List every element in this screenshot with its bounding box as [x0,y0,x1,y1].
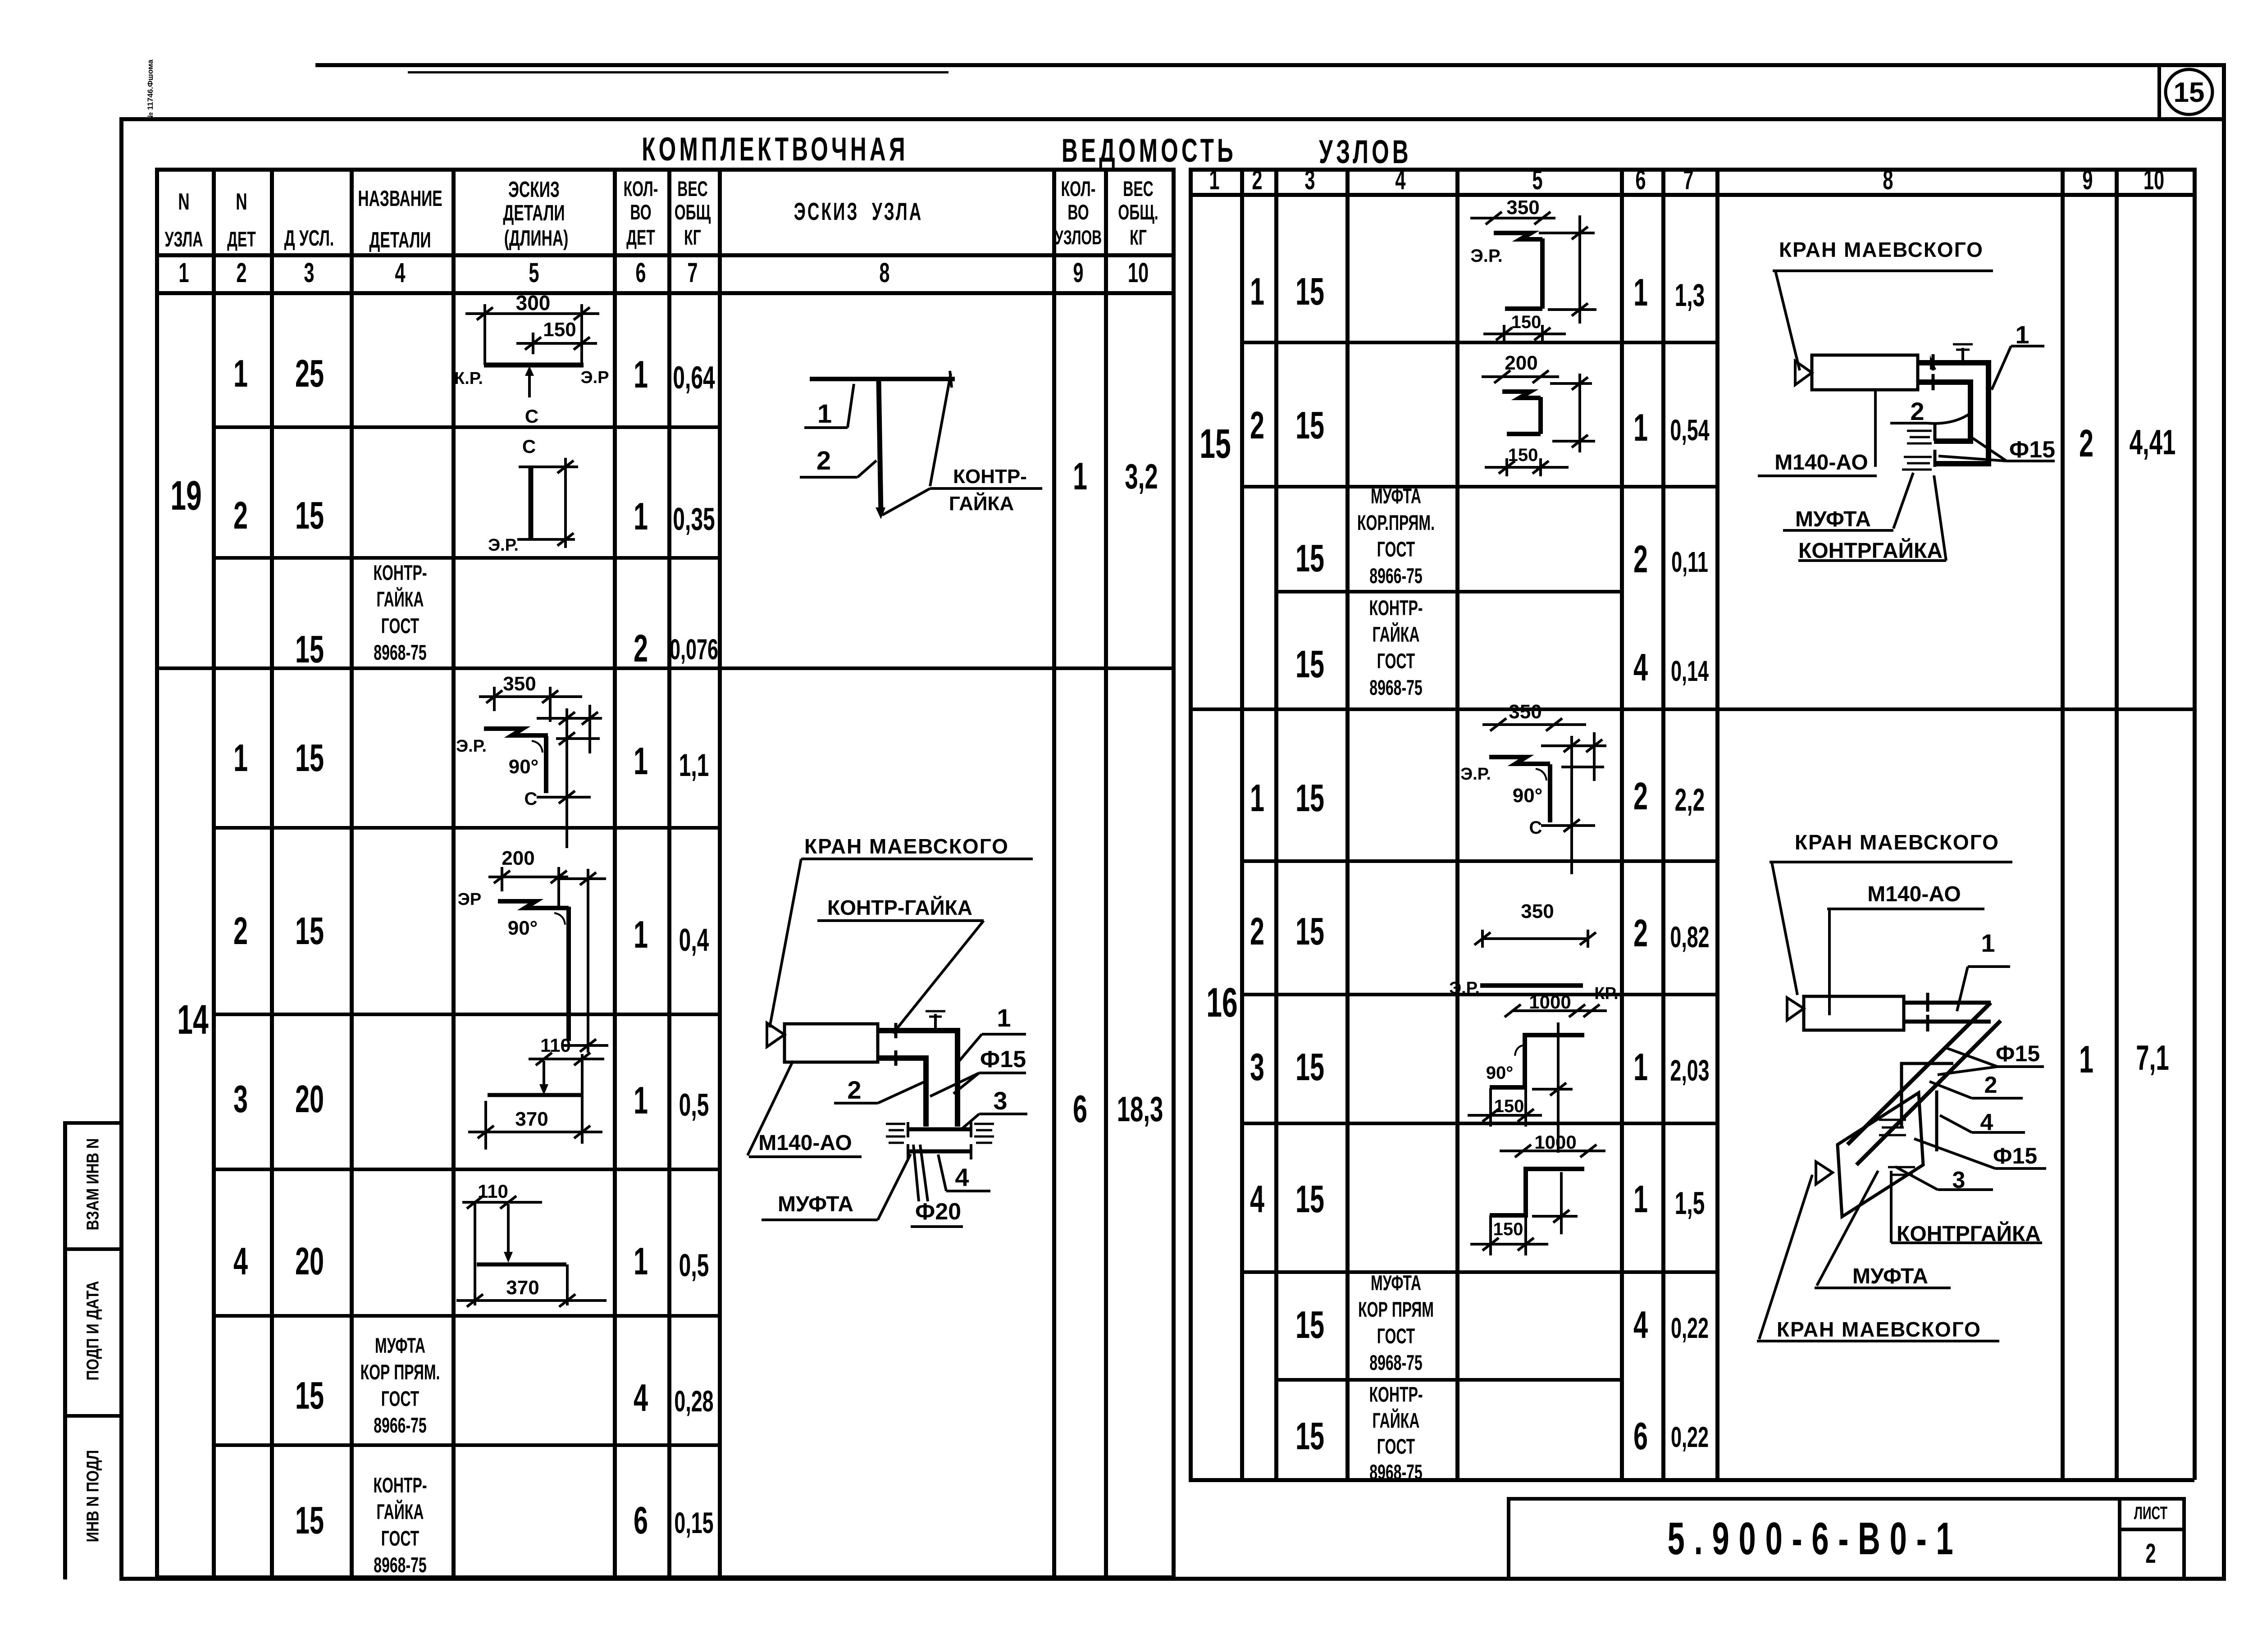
valve top body [1804,996,1904,1030]
svg-text:350: 350 [1521,900,1554,922]
valve M140 body [1812,355,1918,390]
left table col line 6 [613,168,617,1578]
svg-text:М140-АО: М140-АО [1867,882,1961,906]
svg-text:1: 1 [1981,929,1995,957]
sketch node 19 assembly [789,370,1059,523]
svg-text:КРАН МАЕВСКОГО: КРАН МАЕВСКОГО [1777,1318,1981,1341]
node 16 row5 kol [1633,1304,1648,1346]
svg-text:150: 150 [543,319,576,341]
svg-text:МУФТА: МУФТА [1795,507,1871,531]
title block sheet number [2145,1538,2156,1570]
valve M140 body [784,1024,878,1062]
svg-text:Ф15: Ф15 [1993,1143,2037,1168]
right sub-row divider 15r3 [1274,590,1621,593]
strip divider 3 [63,1414,123,1418]
right table bottom [1189,1478,2194,1482]
svg-text:2: 2 [816,446,831,475]
node 15 row1 ves [1675,277,1705,313]
sketch node16 det4 step 1000 150 [1455,1127,1620,1272]
connector hook [1902,1063,1953,1127]
svg-text:КРАН МАЕВСКОГО: КРАН МАЕВСКОГО [1795,831,1999,854]
node 19 row1 ves [673,360,715,395]
title block word list [2134,1503,2167,1524]
svg-text:C: C [1529,818,1542,838]
sketch node14 det4 pipe 110 370 [452,1169,613,1315]
node 16 row1 dusl [1295,777,1324,820]
stem symbol [1961,348,1964,363]
svg-text:15: 15 [2174,77,2205,108]
left sub-row divider 19r1 [212,425,720,429]
node 15 row4 dusl [1295,643,1324,686]
node 16 row4 kol [1633,1178,1648,1221]
lower valve parallelogram [1838,1093,1923,1217]
sketch node15 det2 200 150 [1455,342,1620,486]
title block left [1507,1497,1510,1578]
left table col line 10 [1104,168,1108,1578]
outer frame bottom [119,1577,2226,1581]
svg-text:М140-АО: М140-АО [758,1131,852,1155]
sketch node15 det1 350 150 [1455,194,1620,342]
node 16 row1 kol [1633,775,1648,818]
svg-text:1: 1 [2015,320,2029,349]
svg-text:90°: 90° [1513,785,1543,807]
node 14 row3 det [233,1078,248,1121]
svg-text:C: C [525,406,538,427]
node 14 row4 dusl [295,1240,324,1283]
header col8 eskiz uzla [794,198,923,226]
node 16 row4 dusl [1295,1178,1324,1221]
sheet number circle 15 [2162,67,2216,119]
small stamp text top left [146,59,155,120]
left table numbers row bottom [155,291,1175,295]
node 14 row6 ves [674,1506,713,1540]
vertical leader from valve to M140-AO [1874,390,1877,467]
coupling hatches [1934,424,1937,441]
node 15 row4 name kontrgaika [1369,595,1423,701]
node 16 row1 ves [1675,782,1705,817]
right table col line 2 [1240,168,1244,1480]
svg-text:2: 2 [1910,397,1924,425]
svg-text:Э.Р: Э.Р [581,368,609,387]
left table bottom [155,1575,1175,1579]
node 15 row2 ves [1670,414,1709,447]
left table right edge [1172,168,1176,1578]
svg-text:Ф20: Ф20 [915,1199,961,1225]
svg-text:90°: 90° [1486,1063,1514,1083]
node 14 row3 ves [679,1087,709,1123]
node 16 ves obsh [2136,1038,2169,1077]
node 14 row5 dusl [295,1374,324,1417]
svg-text:К.Р.: К.Р. [454,369,483,388]
left table col line 1 [155,168,159,1578]
right table col line 6 [1620,168,1624,1480]
svg-text:КОНТРГАЙКА: КОНТРГАЙКА [1798,538,1943,563]
right table right edge [2193,168,2197,1480]
sketch node14 det2 bend 200 90 [452,827,613,1014]
svg-text:ГАЙКА: ГАЙКА [949,492,1014,515]
left table col line 3 [270,168,274,1578]
joint tick marks [1930,355,1936,370]
node 16 row5 dusl [1295,1304,1324,1346]
node 14 row3 dusl [295,1078,324,1121]
svg-text:1000: 1000 [1529,991,1571,1013]
svg-text:1: 1 [997,1004,1011,1032]
svg-text:300: 300 [516,291,551,315]
svg-text:Ф15: Ф15 [2009,437,2055,463]
sheet number box divider [2157,63,2161,120]
svg-text:МУФТА: МУФТА [1852,1264,1928,1288]
right sub-row divider 16r1 [1240,859,1717,863]
node 16 row2 det [1250,910,1264,953]
node 16 row3 dusl [1295,1046,1324,1089]
top thin border line [315,63,2226,67]
title block right [2182,1497,2186,1578]
node 15 kol uzlov [2079,422,2093,465]
node 15 row4 kol [1633,646,1648,689]
svg-text:КОНТР-: КОНТР- [953,465,1027,488]
right sub-row divider 16r4 [1240,1270,1717,1274]
strip label vzam inv [83,1138,104,1231]
svg-text:150: 150 [1493,1219,1523,1239]
header col6 kol-vo det [624,178,658,201]
node 15 row3 dusl [1295,537,1324,580]
diagonal pipe double line [1847,1003,1991,1145]
right table col line 5 [1455,168,1459,1480]
node 15 number [1199,420,1231,467]
svg-text:3: 3 [993,1086,1007,1115]
strip divider 2 [63,1247,123,1251]
node 15 row4 ves [1671,655,1709,687]
node 16 row2 dusl [1295,910,1324,953]
node 19 row1 dusl [295,352,324,395]
title block top [1507,1497,2185,1501]
node 19 kol uzlov [1073,455,1087,498]
right table col line 10 [2115,168,2119,1480]
node 16 row5 ves [1671,1312,1709,1344]
node 14 row1 ves [679,747,709,783]
outer frame left [119,117,123,1581]
node 19 row3 ves [670,634,718,666]
title block list divider [2118,1497,2121,1578]
header col1 N uzla [178,189,189,215]
svg-text:Э.Р.: Э.Р. [1449,979,1480,998]
right numbers row [1209,165,1219,196]
header col5 eskiz detali dlina [508,177,560,201]
header col3 D usl [284,225,334,250]
header col2 N det [236,189,247,215]
left table col line 8 [718,168,722,1578]
node 14 row5 kol [634,1377,648,1419]
node 19 ves obsh [1125,457,1158,496]
node 14 row2 kol [634,913,648,956]
node 16 row4 ves [1675,1185,1705,1221]
svg-text:150: 150 [1511,312,1542,332]
outer frame right [2222,63,2226,1581]
top thin border line second segment [408,71,949,73]
left table top [155,168,1175,172]
svg-text:150: 150 [1494,1096,1524,1116]
svg-text:C: C [522,436,536,457]
node 14 row6 kol [634,1499,648,1542]
node 14 number [177,996,208,1043]
outer frame top [119,117,2226,121]
header col9 kol-vo uzlov [1061,178,1096,201]
node 14 row2 det [233,910,248,953]
svg-text:КРАН МАЕВСКОГО: КРАН МАЕВСКОГО [804,835,1009,858]
sketch node14 det1 bend 350 90 [452,668,613,827]
node 14 row2 ves [679,922,709,958]
pipe top line [810,377,955,381]
node 19 row2 det [233,494,248,537]
pipe inner elbow [878,1058,926,1127]
node 19 row3 name kontrgaika gost [373,560,427,666]
svg-text:Ф15: Ф15 [1996,1041,2040,1066]
left table node 19/14 boundary [155,666,1175,670]
right sub-row divider 15r1 [1240,341,1717,344]
node 16 row3 det [1250,1046,1264,1089]
node 16 row4 det [1250,1178,1264,1221]
right table col line 9 [2061,168,2065,1480]
left table col line 9 [1052,168,1056,1578]
node 15 row1 dusl [1295,270,1324,313]
svg-text:МУФТА: МУФТА [778,1192,853,1216]
node 19 number [170,472,201,519]
node 14 row4 det [233,1240,248,1283]
pipe outer elbow [1918,363,1988,464]
sketch node16 det1 bend 350 90 [1455,694,1620,858]
node 15 ves obsh [2130,423,2176,462]
svg-text:Э.Р.: Э.Р. [1460,765,1491,784]
svg-text:Э.Р.: Э.Р. [1470,246,1502,266]
node 19 row1 det [233,352,248,395]
node 14 row2 dusl [295,910,324,953]
title block doc number [1668,1513,1963,1565]
node 16 row5 name mufta [1358,1270,1434,1376]
svg-text:90°: 90° [508,917,538,939]
node 19 row2 dusl [295,494,324,537]
node 19 row3 kol [634,627,648,670]
sketch node14 det3 pipe 110 370 [452,1014,613,1169]
svg-text:350: 350 [1506,196,1539,219]
svg-text:КОНТР-ГАЙКА: КОНТР-ГАЙКА [827,896,972,919]
coupling mufta [908,1127,971,1132]
strip left edge [63,1121,67,1579]
node 19 row3 dusl [295,628,324,671]
strip label inv n podl [83,1450,104,1542]
node 15 row2 det [1250,404,1264,447]
sketch node 14 assembly kran maevskogo [743,829,1059,1262]
coupling hatches [1879,1119,1906,1121]
pipe inner elbow [1918,382,1970,441]
node 15 row2 dusl [1295,404,1324,447]
sketch node 15 assembly kran maevskogo [1744,234,2059,568]
node 14 row4 ves [679,1247,709,1283]
svg-text:1: 1 [817,399,832,429]
header col7 ves obsh kg [677,178,708,201]
left sub-row divider 19r2 [212,556,720,560]
pipe vertical [879,380,881,514]
node 16 row6 dusl [1295,1415,1324,1458]
right table col line 7 [1661,168,1665,1480]
right table numbers row bottom [1189,193,2194,197]
title block list cell divider [2118,1528,2185,1531]
left table col line 7 [667,168,671,1578]
node 14 row1 kol [634,740,648,783]
left numbers row [178,258,189,289]
drawing title [642,131,908,168]
sketch node19 det2 vertical part [452,427,613,557]
svg-text:370: 370 [506,1277,539,1299]
right sub-row divider 16r2 [1240,993,1717,996]
sketch node16 det3 bend 1000 150 [1455,1008,1620,1127]
svg-text:4: 4 [955,1163,969,1191]
svg-text:1000: 1000 [1534,1132,1576,1153]
pipe from valve double lines [1904,1001,1991,1005]
node 16 row2 kol [1633,912,1648,955]
svg-text:110: 110 [478,1181,508,1202]
svg-text:2: 2 [847,1076,861,1104]
right sub-row divider 16r5 [1274,1378,1621,1382]
svg-text:90°: 90° [509,756,539,778]
svg-text:КРАН МАЕВСКОГО: КРАН МАЕВСКОГО [1779,238,1984,261]
right table col line 3 [1274,168,1278,1480]
left table col line 4 [350,168,354,1578]
svg-text:C: C [524,789,538,809]
strip divider 1 [63,1121,123,1125]
strip label podp i data [83,1281,104,1380]
node 16 row3 ves [1670,1054,1709,1087]
svg-text:КР.: КР. [1594,984,1618,1003]
svg-text:ЭР: ЭР [458,890,481,909]
left sub-row divider 14r1 [212,826,720,830]
right sub-row divider 16r3 [1240,1122,1717,1125]
node 14 row6 dusl [295,1499,324,1542]
right table top [1189,168,2194,172]
svg-text:350: 350 [503,673,536,695]
pipe outer elbow [878,1031,958,1127]
node 16 row6 name kontrgaika [1369,1382,1423,1486]
node 14 row3 kol [634,1079,648,1122]
node 19 row2 kol [634,495,648,538]
node 14 kol uzlov [1073,1088,1087,1131]
svg-text:Ф15: Ф15 [980,1046,1026,1072]
header col4 nazvanie detali [358,186,442,210]
node 19 row2 ves [673,501,715,537]
node 14 row4 kol [634,1240,648,1283]
node 16 row6 ves [1671,1421,1709,1453]
left table col line 5 [452,168,456,1578]
sketch node 16 assembly kran maevskogo [1744,829,2059,1352]
node 16 kol uzlov [2079,1038,2093,1081]
node 16 row3 kol [1633,1046,1648,1089]
left sub-row divider 14r5 [212,1443,720,1447]
left sub-row divider 14r2 [212,1013,720,1016]
node 15 row1 kol [1633,271,1648,314]
svg-text:2: 2 [1984,1072,1998,1098]
svg-text:370: 370 [515,1108,548,1130]
node 14 row5 ves [674,1385,713,1418]
node 16 row2 ves [1670,921,1709,954]
node 19 row1 kol [634,353,648,396]
node 16 number [1206,979,1237,1026]
right table col line 1 [1189,168,1193,1480]
node 14 row5 name mufta gost [360,1333,440,1439]
right table col line 8 [1715,168,1719,1480]
node 15 row1 det [1250,270,1264,313]
svg-text:110: 110 [540,1035,571,1056]
right table col line 4 [1345,168,1350,1480]
svg-text:200: 200 [502,847,534,869]
node 16 row6 kol [1633,1415,1648,1458]
node 14 row6 name kontrgaika gost [373,1472,427,1579]
node 15 row2 kol [1633,406,1648,449]
node 15 row3 ves [1671,546,1708,578]
right sub-row divider 15r2 [1240,485,1717,488]
right table node 15/16 boundary [1189,707,2194,711]
node 15 row3 name mufta [1357,483,1435,589]
left sub-row divider 14r4 [212,1314,720,1318]
left table header bottom [155,253,1175,257]
svg-text:Э.Р.: Э.Р. [488,536,519,555]
svg-text:350: 350 [1509,701,1542,723]
left sub-row divider 14r3 [212,1168,720,1171]
svg-text:Э.Р.: Э.Р. [456,737,487,756]
left table col line 2 [212,168,216,1578]
sketch node19 det1 part 300x150 [452,293,613,427]
sketch node16 det2 straight 350 [1455,873,1620,1008]
stem symbol [934,1014,937,1031]
node 14 row1 dusl [295,737,324,780]
joint ticks [894,1023,898,1038]
node 15 row3 kol [1633,538,1648,581]
node 14 ves obsh [1117,1090,1163,1129]
node 16 row1 det [1250,777,1264,820]
header col10 ves obsh kg [1123,178,1154,201]
node 14 row1 det [233,737,248,780]
svg-text:М140-АО: М140-АО [1774,451,1868,475]
